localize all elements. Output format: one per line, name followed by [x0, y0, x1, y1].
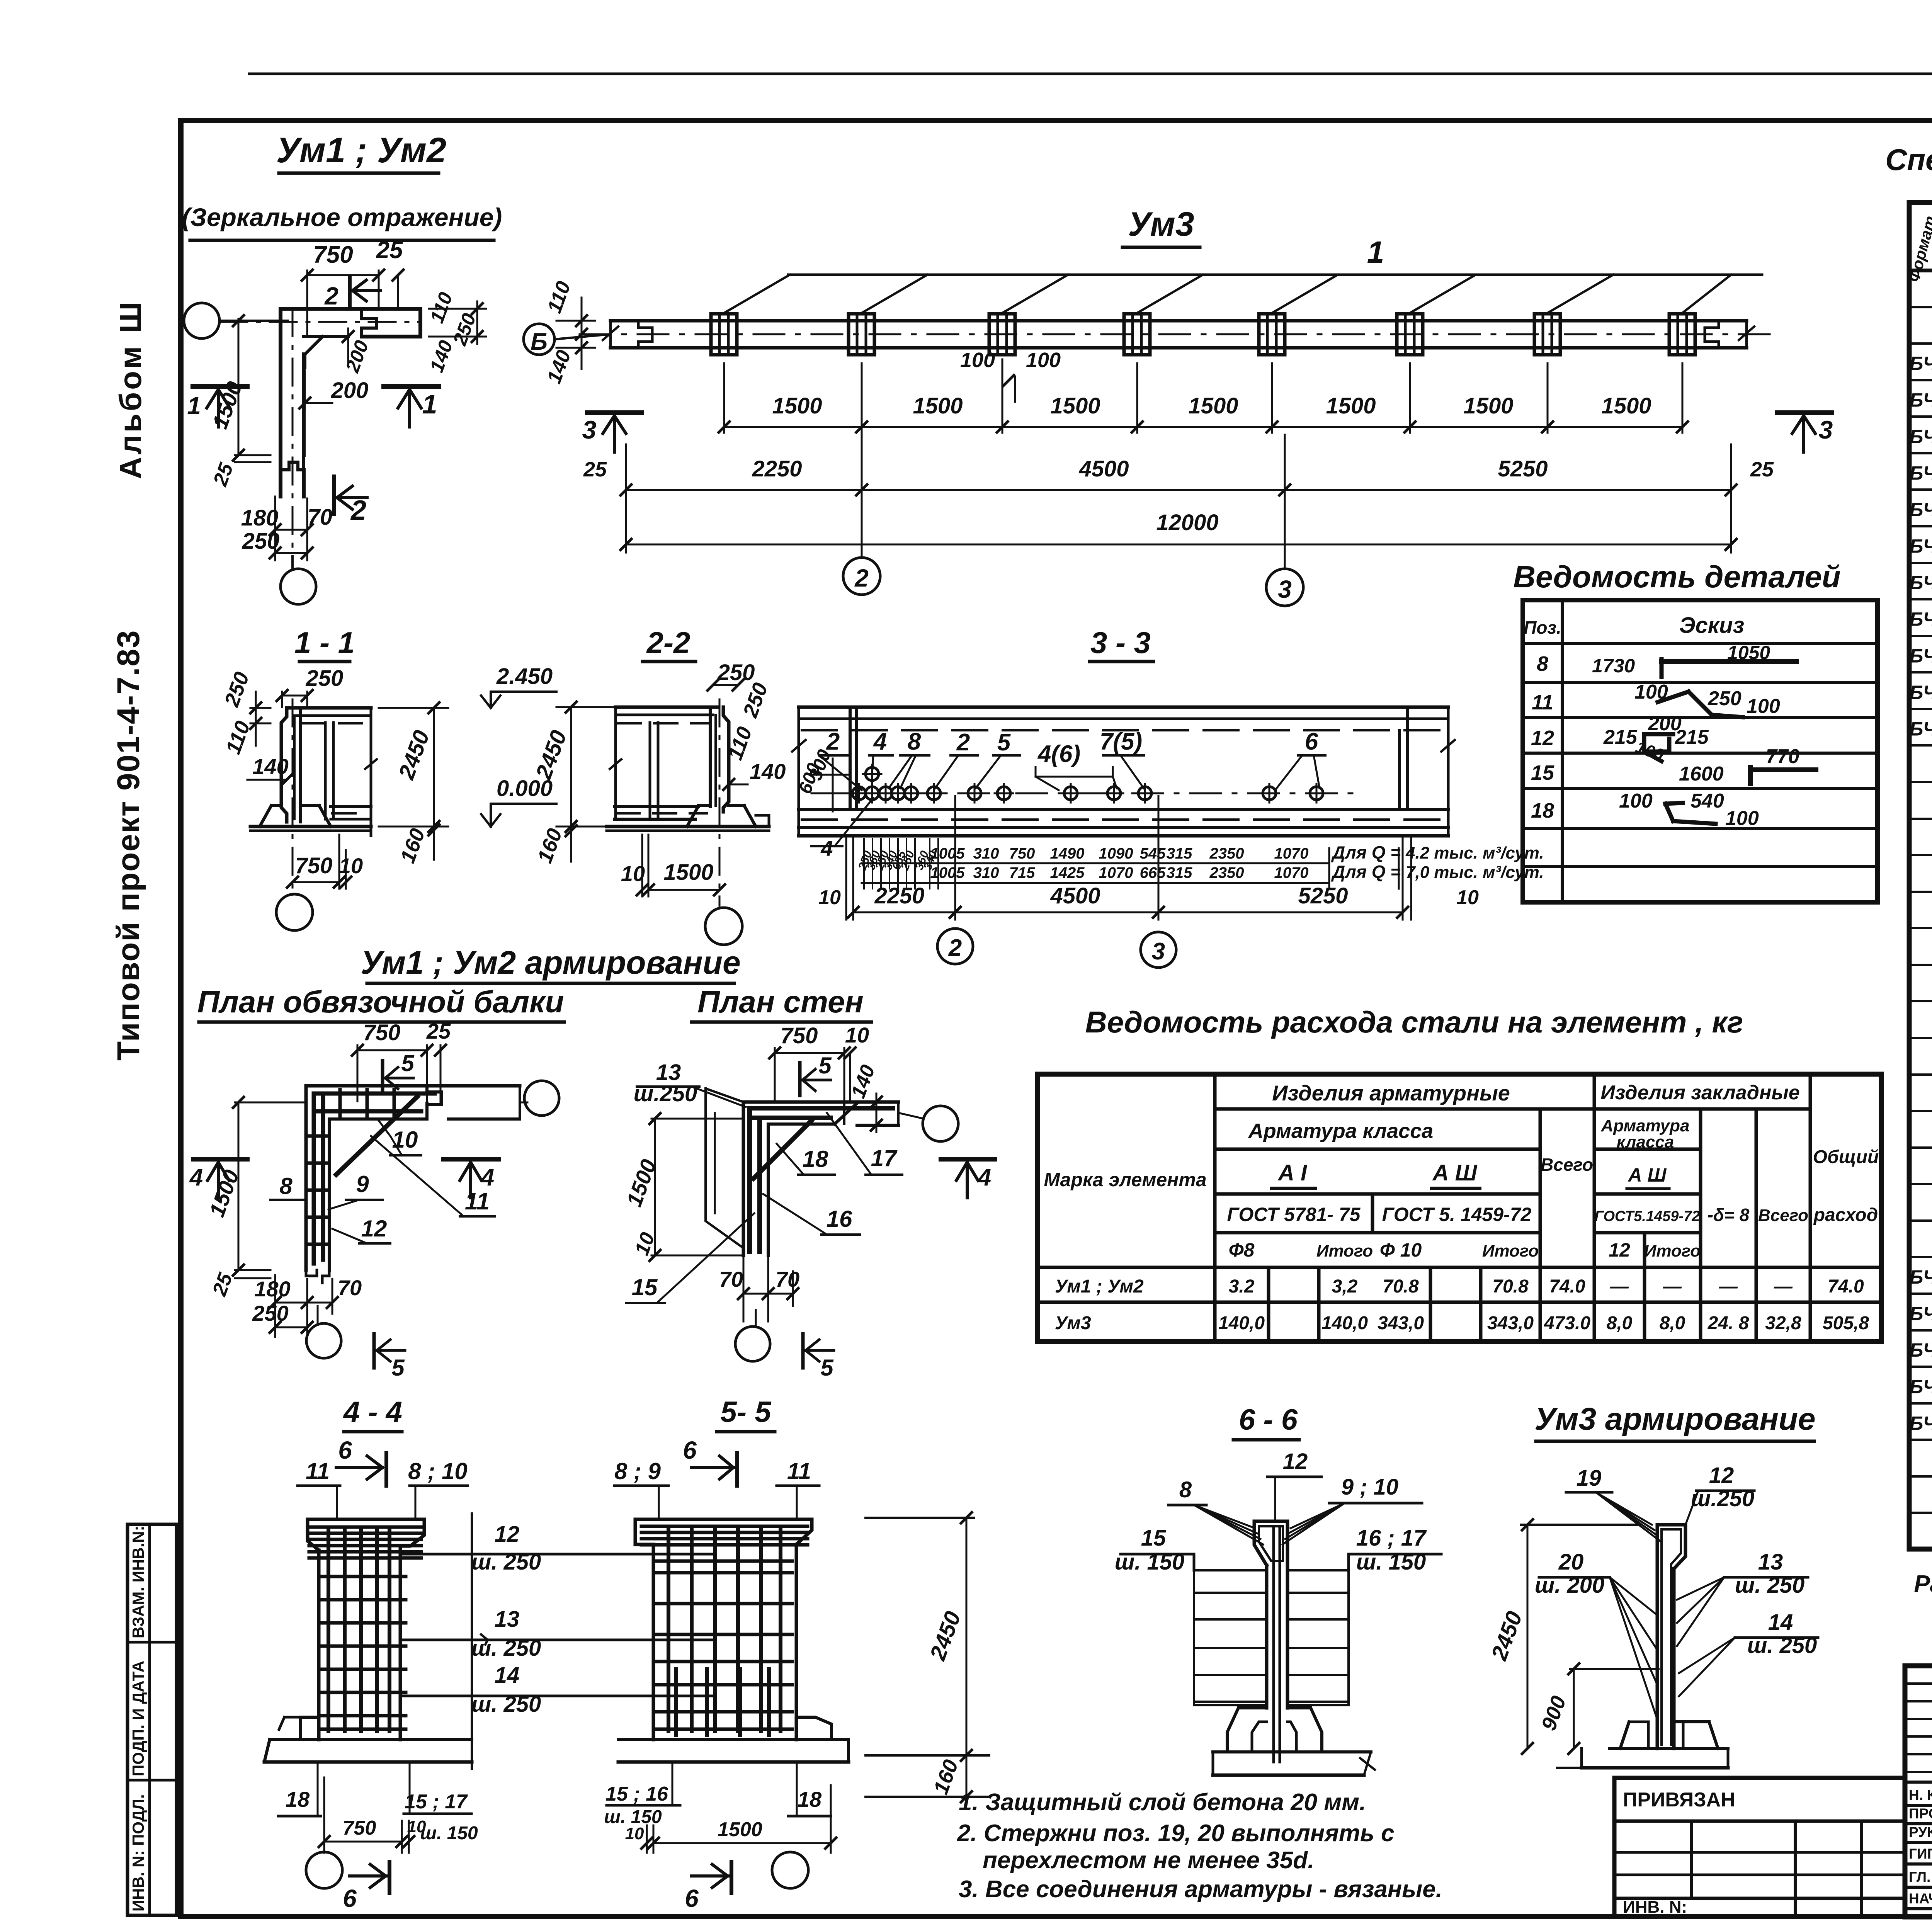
svg-text:200: 200 [331, 378, 369, 403]
svg-text:1: 1 [422, 389, 437, 419]
section arrow 4 right (plan sten) [941, 1157, 995, 1162]
svg-text:3.2: 3.2 [1229, 1276, 1255, 1297]
svg-text:11: 11 [787, 1458, 811, 1484]
embedded plate stub 7 [1534, 314, 1560, 355]
svg-text:1500: 1500 [1050, 393, 1100, 418]
svg-text:ГЛ. КОНСТ.: ГЛ. КОНСТ. [1909, 1869, 1932, 1885]
6-6 wall verticals [1265, 1565, 1269, 1708]
svg-text:—: — [1719, 1276, 1738, 1297]
title block outer [1905, 1666, 1932, 1917]
svg-text:10: 10 [339, 854, 363, 878]
svg-text:10: 10 [845, 1023, 869, 1047]
svg-text:13: 13 [495, 1607, 520, 1632]
2-2 top slab [616, 706, 719, 709]
embedded plate stub 1 [711, 314, 737, 355]
svg-text:ш.250: ш.250 [1691, 1486, 1754, 1511]
svg-text:215: 215 [1603, 726, 1638, 748]
Um3 wall band outline [611, 319, 1747, 323]
embedded plate stub 5 [1259, 314, 1285, 355]
svg-text:180: 180 [254, 1277, 290, 1301]
svg-text:9: 9 [356, 1171, 369, 1197]
svg-text:750: 750 [313, 241, 353, 268]
svg-text:ПРОВЕР.: ПРОВЕР. [1909, 1806, 1932, 1821]
svg-text:БЧ: БЧ [1910, 718, 1932, 740]
spec row 35: Бетон М200 МРЗ 150 ВЧ [1909, 1512, 1932, 1514]
svg-text:18: 18 [803, 1146, 828, 1172]
steel table header lines [1213, 1074, 1217, 1342]
svg-text:140,0: 140,0 [1321, 1313, 1368, 1333]
svg-text:2450: 2450 [1486, 1608, 1527, 1664]
callout leader to pos.1 [788, 274, 1762, 276]
svg-text:200: 200 [341, 337, 373, 376]
svg-text:15: 15 [632, 1274, 658, 1300]
spec row 24: Сальник Ду 400, ℓ= 200 [1909, 1110, 1932, 1112]
svg-text:3 - 3: 3 - 3 [1090, 626, 1151, 660]
spec row 15: Материалы [1909, 781, 1932, 783]
1-1 centerline [292, 699, 294, 889]
svg-text:2-2: 2-2 [646, 626, 690, 660]
svg-text:1070: 1070 [1274, 864, 1309, 881]
4-4 top flange outline [308, 1519, 424, 1546]
svg-text:2: 2 [324, 282, 338, 310]
specification table frame [1909, 202, 1932, 1549]
svg-text:9 ; 10: 9 ; 10 [1341, 1475, 1398, 1500]
spec row 6: Ф10АШ ГОСТ 5.1459-72 ℓ=1050 [1909, 452, 1932, 454]
svg-text:16: 16 [827, 1206, 852, 1232]
svg-text:2: 2 [826, 728, 840, 755]
axis circle right (plan balki) [524, 1081, 559, 1116]
break marks ends [603, 327, 618, 340]
4-4 axis circle [306, 1852, 342, 1888]
svg-text:100: 100 [1026, 349, 1061, 372]
svg-text:6: 6 [685, 1884, 699, 1912]
svg-text:750: 750 [295, 853, 333, 878]
spec row 2: Детали [1909, 306, 1932, 308]
svg-text:2: 2 [854, 564, 869, 592]
keyway bottom (plan balki) [306, 1270, 317, 1276]
6-6 shelf lines [1194, 1569, 1267, 1571]
svg-text:А Ш: А Ш [1432, 1160, 1478, 1185]
spec row 23: Сальник Ду 200, ℓ=200 [1909, 1073, 1932, 1076]
svg-text:160: 160 [396, 825, 429, 866]
axis circle bottom (plan balki) [317, 1306, 319, 1323]
spec row 13: Ф10АШ ГОСТ 5.1459-72 ℓ=740 [1909, 708, 1932, 710]
axis circle B [524, 324, 554, 355]
svg-text:11: 11 [1532, 691, 1553, 714]
spec row 34: Материалы [1909, 1475, 1932, 1478]
corner wall outline (plan sten) [743, 1100, 898, 1104]
svg-text:-δ= 8: -δ= 8 [1708, 1205, 1750, 1225]
embedded plate stub 2 [849, 314, 874, 355]
svg-text:5: 5 [820, 1355, 834, 1381]
svg-text:1500: 1500 [1463, 393, 1513, 418]
svg-text:11: 11 [465, 1188, 490, 1215]
svg-text:2.450: 2.450 [496, 664, 553, 689]
svg-text:100: 100 [1619, 790, 1653, 812]
svg-text:750: 750 [363, 1020, 401, 1045]
svg-text:Итого: Итого [1482, 1242, 1539, 1260]
svg-text:Ум3: Ум3 [1055, 1313, 1091, 1333]
svg-text:А I: А I [1277, 1160, 1308, 1185]
svg-text:70: 70 [338, 1276, 362, 1300]
section arrow 1 right [384, 384, 439, 389]
svg-text:3: 3 [1819, 415, 1833, 444]
3-3 right inner wall corner [1398, 730, 1401, 810]
um3a dim 2450 [1521, 1524, 1638, 1526]
svg-text:ПРИВЯЗАН: ПРИВЯЗАН [1623, 1789, 1735, 1811]
svg-text:ИНВ. N:: ИНВ. N: [1623, 1898, 1687, 1917]
svg-text:0.000: 0.000 [497, 776, 553, 801]
2-2 right wall flange [709, 707, 712, 806]
svg-text:140: 140 [425, 337, 457, 375]
svg-text:7,0 тыс. м³/сут.: 7,0 тыс. м³/сут. [1406, 863, 1544, 882]
5-5 mesh bars [667, 1530, 670, 1731]
svg-text:160: 160 [929, 1757, 963, 1797]
svg-text:План обвязочной балки: План обвязочной балки [197, 985, 564, 1019]
svg-text:2450: 2450 [925, 1608, 966, 1664]
svg-text:8 ; 9: 8 ; 9 [614, 1458, 661, 1484]
spec row 14: blank [1909, 744, 1932, 747]
svg-text:160: 160 [533, 825, 566, 866]
svg-text:Н. КОНТР.: Н. КОНТР. [1909, 1787, 1932, 1803]
svg-text:19: 19 [1577, 1466, 1602, 1491]
svg-text:1730: 1730 [1592, 655, 1635, 677]
2-2 foundation right [687, 806, 699, 827]
svg-text:1005: 1005 [930, 864, 965, 881]
svg-text:140: 140 [847, 1062, 879, 1101]
2-2 inner wall verticals [649, 723, 651, 819]
4-4 foundation [301, 1716, 319, 1719]
3-3 break marks [792, 740, 806, 752]
svg-text:3,2: 3,2 [1332, 1276, 1358, 1297]
svg-text:25: 25 [209, 460, 238, 489]
svg-text:140: 140 [750, 759, 786, 784]
svg-text:Ф8: Ф8 [1229, 1239, 1255, 1261]
svg-text:74.0: 74.0 [1549, 1276, 1585, 1297]
2-2 axis circle [719, 896, 721, 906]
svg-text:250: 250 [449, 310, 480, 349]
4-4 mesh bars [327, 1530, 330, 1731]
svg-text:250: 250 [306, 666, 344, 691]
spec row 4: Ф10АШ ГОСТ 5.1459-72 ℓ=1730 [1909, 379, 1932, 381]
svg-text:750: 750 [1009, 845, 1035, 862]
svg-text:10: 10 [818, 886, 841, 909]
svg-text:24. 8: 24. 8 [1708, 1313, 1749, 1333]
svg-text:8: 8 [908, 728, 921, 755]
svg-text:750: 750 [781, 1023, 818, 1048]
svg-text:3: 3 [582, 415, 597, 444]
5-5 foundation right [796, 1717, 832, 1740]
keyway notch left end [638, 321, 652, 348]
svg-text:ш.250: ш.250 [634, 1081, 697, 1106]
svg-text:18: 18 [286, 1787, 310, 1811]
svg-text:315: 315 [1167, 864, 1192, 881]
4-4 section mark 6 bottom [350, 1874, 386, 1878]
svg-text:6 - 6: 6 - 6 [1239, 1403, 1298, 1436]
diagonal bar pos 11 [336, 1097, 417, 1175]
spec row 10: Ф10АШ ГОСТ 5.1459-72 ℓ=2370 [1909, 598, 1932, 600]
axis circle right (plan sten) [923, 1106, 958, 1141]
svg-text:12: 12 [361, 1216, 387, 1242]
svg-text:250: 250 [242, 529, 280, 554]
um3a dim 900 [1570, 1668, 1658, 1670]
embedded plate stub 8 [1669, 314, 1695, 355]
svg-text:ш. 150: ш. 150 [420, 1823, 478, 1844]
svg-text:(Зеркальное отражение): (Зеркальное отражение) [182, 203, 502, 231]
svg-text:4: 4 [820, 836, 833, 861]
um3a wall [1656, 1525, 1659, 1748]
section arrows 4 (plan balki) [193, 1157, 247, 1162]
svg-text:1500: 1500 [718, 1818, 762, 1841]
svg-text:15: 15 [1141, 1526, 1166, 1551]
adjacent panel outline (thin) [706, 1088, 743, 1248]
spec row 19: Изделия закладные [1909, 927, 1932, 929]
svg-text:2. Стержни поз. 19, 20 выпол: 2. Стержни поз. 19, 20 выполнять с [957, 1820, 1395, 1847]
dim row 2250/4500/5250 [626, 489, 1731, 491]
svg-text:класса: класса [1617, 1133, 1674, 1151]
section mark 5 bottom (plan balki) [372, 1334, 376, 1368]
svg-text:3: 3 [1278, 575, 1292, 603]
svg-text:70: 70 [719, 1267, 743, 1291]
spec row 3: Ф10АШ ГОСТ 5.1459-72 ℓ=2780 [1909, 342, 1932, 345]
section arrow 1 left [193, 384, 247, 389]
1-1 foundation [260, 806, 271, 827]
svg-text:505,8: 505,8 [1823, 1313, 1869, 1333]
svg-text:8: 8 [1179, 1477, 1192, 1502]
svg-text:БЧ: БЧ [1910, 536, 1932, 557]
svg-text:1 - 1: 1 - 1 [294, 626, 355, 660]
svg-text:1425: 1425 [1050, 864, 1085, 881]
svg-text:2450: 2450 [394, 727, 435, 783]
svg-text:1500: 1500 [663, 860, 713, 885]
svg-text:2: 2 [948, 935, 962, 961]
svg-text:Размеры в скобках даны для пр: Размеры в скобках даны для производитель… [1914, 1571, 1932, 1597]
axis circle 3 [1284, 498, 1286, 569]
svg-text:Изделия закладные: Изделия закладные [1600, 1082, 1799, 1104]
svg-text:Эскиз: Эскиз [1679, 613, 1744, 638]
svg-text:473.0: 473.0 [1544, 1313, 1590, 1333]
section mark 3 left [587, 410, 641, 415]
svg-text:110: 110 [426, 289, 457, 326]
svg-text:10: 10 [407, 1817, 426, 1836]
svg-text:Ум1 ; Ум2 армирование: Ум1 ; Ум2 армирование [361, 944, 740, 981]
svg-text:1500: 1500 [913, 393, 963, 418]
svg-text:Марка элемента: Марка элемента [1044, 1169, 1206, 1190]
spec row 32: Ф8АI ГОСТ 5781-75 ℓобщ [1909, 1402, 1932, 1405]
svg-text:250: 250 [738, 680, 772, 721]
svg-text:750: 750 [343, 1817, 376, 1839]
6-6 left shelf block [1193, 1554, 1196, 1570]
svg-text:540: 540 [1690, 790, 1724, 812]
svg-text:7(5): 7(5) [1100, 728, 1142, 755]
svg-text:Итого: Итого [1316, 1242, 1373, 1260]
svg-text:16 ; 17: 16 ; 17 [1356, 1526, 1427, 1551]
svg-text:4 - 4: 4 - 4 [343, 1396, 402, 1429]
embedded plate stub 4 [1124, 314, 1150, 355]
svg-text:БЧ: БЧ [1910, 645, 1932, 667]
svg-text:5: 5 [818, 1053, 832, 1078]
svg-text:Поз.: Поз. [1524, 617, 1561, 638]
svg-text:5- 5: 5- 5 [721, 1396, 772, 1429]
spec row 25: Сальник Ду 250, ℓ= 200 [1909, 1146, 1932, 1149]
svg-text:6: 6 [683, 1436, 697, 1464]
svg-text:БЧ: БЧ [1910, 1339, 1932, 1361]
svg-text:Итого: Итого [1644, 1242, 1701, 1260]
svg-text:74.0: 74.0 [1828, 1276, 1864, 1297]
centerline vertical [292, 309, 294, 570]
svg-text:План стен: План стен [697, 985, 864, 1019]
svg-text:ш. 250: ш. 250 [471, 1692, 541, 1717]
svg-text:14: 14 [495, 1663, 520, 1688]
svg-text:545: 545 [1140, 845, 1166, 862]
svg-text:ш. 250: ш. 250 [471, 1636, 541, 1661]
svg-text:ИНВ. N: ПОДЛ.: ИНВ. N: ПОДЛ. [129, 1794, 147, 1912]
1-1 axis circle [276, 894, 313, 930]
um3a foundation [1629, 1721, 1657, 1722]
svg-text:250: 250 [717, 660, 755, 685]
svg-text:25: 25 [376, 237, 403, 264]
section mark 5 top [381, 1061, 384, 1094]
svg-text:18: 18 [1531, 799, 1554, 822]
3-3 band outline [799, 706, 1448, 709]
axis circle 2 [861, 498, 863, 558]
svg-text:—: — [1774, 1276, 1793, 1297]
svg-text:расход: расход [1813, 1205, 1878, 1225]
section mark 2 (top) [348, 276, 352, 307]
spec row 21: Сальник Ду 50, ℓ= 200 [1909, 1000, 1932, 1002]
keyway notch right end [1705, 321, 1719, 348]
svg-text:4.2 тыс. м³/сут.: 4.2 тыс. м³/сут. [1405, 844, 1544, 862]
3-3 left inner wall corner [849, 709, 852, 810]
svg-text:12: 12 [1709, 1463, 1734, 1488]
svg-text:70.8: 70.8 [1383, 1276, 1419, 1297]
4-4 right extension line [471, 1514, 473, 1769]
svg-text:1: 1 [187, 392, 201, 420]
embedded plate stub 3 [989, 314, 1015, 355]
svg-text:Альбом: Альбом [113, 344, 148, 479]
spec row 5: Ф10АШ ГОСТ 5.1459-72 ℓ=1050 [1909, 415, 1932, 418]
5-5 wall body [652, 1544, 655, 1740]
svg-text:2350: 2350 [1209, 845, 1244, 862]
svg-text:2350: 2350 [1209, 864, 1244, 881]
svg-text:4(6): 4(6) [1037, 741, 1080, 767]
svg-text:БЧ: БЧ [1910, 462, 1932, 484]
spec row 33: blank [1909, 1439, 1932, 1441]
svg-text:10: 10 [392, 1127, 418, 1153]
svg-text:Ум3: Ум3 [1128, 205, 1194, 243]
svg-text:100: 100 [1747, 695, 1780, 718]
svg-text:Ведомость деталей: Ведомость деталей [1513, 560, 1841, 594]
svg-text:Для Q =: Для Q = [1331, 842, 1401, 862]
svg-text:Для Q =: Для Q = [1331, 862, 1401, 882]
svg-text:900: 900 [1537, 1693, 1570, 1733]
cross ties vertical band [309, 1134, 328, 1138]
svg-text:НАЧ. ОТД.: НАЧ. ОТД. [1909, 1891, 1932, 1906]
svg-text:А Ш: А Ш [1628, 1164, 1667, 1186]
2-2 centerline right wall [719, 699, 721, 896]
svg-text:14: 14 [1768, 1610, 1793, 1635]
svg-text:250: 250 [220, 669, 254, 710]
5-5 section mark 6 bottom [692, 1874, 728, 1878]
svg-text:Типовой проект 901-4-7.83: Типовой проект 901-4-7.83 [111, 629, 146, 1061]
keyway right (plan balki) [427, 1086, 442, 1104]
svg-text:8 ; 10: 8 ; 10 [408, 1458, 467, 1484]
3-3 axis circle 2 [937, 929, 973, 964]
svg-text:ш. 250: ш. 250 [1735, 1573, 1805, 1598]
inner corner chamfer 200x200 [305, 337, 323, 354]
embedded plate stub 6 [1397, 314, 1423, 355]
svg-text:БЧ: БЧ [1910, 1412, 1932, 1434]
svg-text:5: 5 [401, 1050, 415, 1076]
svg-text:—: — [1610, 1276, 1629, 1297]
svg-text:1500: 1500 [1326, 393, 1376, 418]
svg-text:215: 215 [1675, 726, 1709, 748]
svg-text:25: 25 [426, 1019, 451, 1043]
svg-text:2250: 2250 [752, 456, 802, 481]
svg-text:70: 70 [776, 1267, 799, 1291]
svg-text:110: 110 [543, 278, 575, 316]
svg-text:Ум3 армирование: Ум3 армирование [1534, 1401, 1815, 1437]
3-3 axis circle 3 [1141, 932, 1176, 968]
dim 1500 left [238, 319, 240, 455]
5-5 right dim 2450/160 [866, 1517, 974, 1519]
spec row 18: Ум3 [1909, 891, 1932, 893]
svg-text:12: 12 [495, 1522, 520, 1547]
svg-text:2: 2 [350, 495, 366, 526]
svg-text:15 ; 17: 15 ; 17 [405, 1791, 468, 1813]
svg-text:6: 6 [343, 1884, 357, 1912]
2-2 left break edge [614, 707, 617, 819]
svg-text:1090: 1090 [1099, 845, 1133, 862]
svg-text:4: 4 [977, 1164, 991, 1191]
svg-text:2250: 2250 [874, 883, 924, 908]
dim row 1500 x7 [724, 426, 1682, 428]
svg-text:БЧ: БЧ [1910, 499, 1932, 520]
Um3 centerline [580, 333, 1777, 335]
axis circle bottom (plan sten) [755, 1310, 757, 1326]
svg-text:180: 180 [241, 505, 279, 531]
svg-text:70.8: 70.8 [1492, 1276, 1529, 1297]
svg-text:5: 5 [391, 1355, 405, 1381]
svg-text:8: 8 [279, 1173, 293, 1199]
spec row 28: Ф8АI ГОСТ 3781-75 ℓ= 1130 [1909, 1256, 1932, 1258]
svg-text:Б: Б [531, 328, 548, 355]
spec row 29: Ф10АШ ГОСТ 5.1459-72 ℓ= 2430 [1909, 1293, 1932, 1295]
centerline horizontal [220, 321, 419, 323]
axis circle (top left) [184, 303, 219, 338]
svg-text:18: 18 [798, 1787, 822, 1811]
svg-text:2: 2 [956, 729, 970, 756]
svg-text:343,0: 343,0 [1378, 1313, 1424, 1333]
dim row 12000 [626, 544, 1731, 546]
svg-text:1070: 1070 [1274, 845, 1309, 862]
svg-text:ГОСТ 5781- 75: ГОСТ 5781- 75 [1227, 1204, 1361, 1225]
svg-text:—: — [1663, 1276, 1682, 1297]
svg-text:БЧ: БЧ [1910, 426, 1932, 447]
svg-text:1005: 1005 [930, 845, 965, 862]
svg-text:10: 10 [1456, 886, 1479, 909]
svg-text:1490: 1490 [1050, 845, 1085, 862]
6-6 wall head [1254, 1521, 1287, 1565]
svg-text:Ум1 ; Ум2: Ум1 ; Ум2 [276, 131, 446, 170]
svg-text:ш. 250: ш. 250 [471, 1549, 541, 1575]
svg-text:1: 1 [1367, 235, 1384, 269]
spec row 11: Ф10АШ ГОСТ 5.1459-72 ℓ=1600 [1909, 635, 1932, 637]
svg-text:140: 140 [252, 754, 288, 779]
svg-text:15 ; 16: 15 ; 16 [605, 1783, 668, 1805]
svg-text:5: 5 [997, 729, 1011, 756]
svg-text:ш. 250: ш. 250 [1747, 1633, 1817, 1658]
